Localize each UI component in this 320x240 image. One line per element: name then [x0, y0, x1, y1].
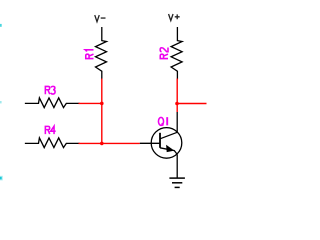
resistor R3	[26, 98, 80, 108]
wire R2 to collector	[176, 79, 178, 113]
node V+ label	[169, 14, 180, 21]
edge marker upper-left	[0, 101, 2, 103]
resistor R1 label	[85, 50, 93, 59]
junction node at R2/output	[175, 102, 179, 106]
wire R4 to transistor base	[79, 142, 140, 144]
ground	[169, 178, 185, 187]
transistor Q1	[140, 112, 182, 178]
resistor R4	[26, 138, 80, 148]
node V- label	[95, 15, 106, 22]
wire bus from R1 to R4 row	[101, 79, 103, 144]
resistor R1	[96, 28, 107, 79]
edge marker top-left	[0, 24, 2, 27]
resistor R3 label	[45, 86, 55, 94]
edge marker lower-left	[0, 176, 3, 181]
resistor R4 label	[45, 126, 55, 134]
resistor R2 label	[160, 48, 168, 59]
wire R3 to bus	[79, 102, 102, 104]
transistor Q1 label	[158, 117, 167, 125]
wire output to right	[177, 103, 206, 105]
resistor R2	[171, 28, 182, 79]
junction node at R4/bus	[100, 142, 104, 146]
junction node at R3/bus	[100, 102, 104, 106]
